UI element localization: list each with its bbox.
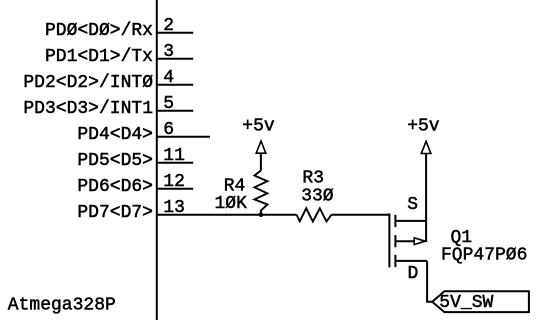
pin 5 stub bbox=[157, 110, 193, 112]
svg-text:PD2<D2>/INTØ: PD2<D2>/INTØ bbox=[23, 73, 153, 93]
resistor R4 zigzag bbox=[254, 171, 267, 215]
net flag 5V_SW outline bbox=[432, 291, 529, 312]
IC Atmega328P body line bbox=[156, 0, 158, 320]
svg-text:FQP47PØ6: FQP47PØ6 bbox=[441, 246, 527, 266]
transistor Q1 channel segment body bbox=[394, 235, 396, 247]
svg-text:PD3<D3>/INT1: PD3<D3>/INT1 bbox=[23, 99, 153, 119]
transistor Q1 source lead bbox=[395, 220, 426, 222]
svg-text:PD1<D1>/Tx: PD1<D1>/Tx bbox=[45, 47, 153, 67]
wire +5v arrow to R4 top bbox=[260, 153, 262, 170]
transistor Q1 body lead bbox=[395, 240, 414, 242]
svg-text:PD4<D4>: PD4<D4> bbox=[77, 125, 153, 145]
svg-text:13: 13 bbox=[163, 198, 185, 218]
svg-text:PD5<D5>: PD5<D5> bbox=[77, 151, 153, 171]
svg-text:Atmega328P: Atmega328P bbox=[8, 296, 116, 316]
pin 4 stub bbox=[157, 84, 193, 86]
svg-text:PD6<D6>: PD6<D6> bbox=[77, 177, 153, 197]
power +5v arrow left bbox=[256, 141, 266, 153]
node junction dot at R4 bottom bbox=[259, 212, 264, 217]
svg-text:R3: R3 bbox=[302, 169, 324, 189]
pin 6 stub wire bbox=[157, 136, 210, 138]
transistor Q1 channel segment source bbox=[394, 215, 396, 227]
svg-text:11: 11 bbox=[163, 146, 185, 166]
svg-text:6: 6 bbox=[163, 120, 174, 140]
resistor R3 zigzag bbox=[297, 208, 332, 221]
wire R3 to MOSFET gate bbox=[332, 214, 390, 216]
svg-text:4: 4 bbox=[163, 68, 174, 88]
transistor Q1 channel segment drain bbox=[394, 255, 396, 267]
svg-text:2: 2 bbox=[163, 16, 174, 36]
svg-text:D: D bbox=[408, 264, 419, 284]
transistor Q1 drain lead bbox=[395, 260, 427, 262]
pin 13 wire to R3 bbox=[157, 214, 297, 216]
svg-text:+5v: +5v bbox=[407, 117, 440, 137]
wire drain down bbox=[427, 261, 432, 302]
svg-text:12: 12 bbox=[163, 172, 185, 192]
wire source to +5v bbox=[425, 154, 427, 242]
svg-text:PD7<D7>: PD7<D7> bbox=[77, 203, 153, 223]
transistor Q1 gate plate bbox=[388, 213, 390, 267]
svg-text:3: 3 bbox=[163, 42, 174, 62]
pin 3 stub bbox=[157, 58, 193, 60]
svg-text:+5v: +5v bbox=[242, 117, 275, 137]
svg-text:PDØ<DØ>/Rx: PDØ<DØ>/Rx bbox=[45, 21, 153, 41]
pin 12 stub bbox=[157, 188, 193, 190]
svg-text:1ØK: 1ØK bbox=[215, 194, 248, 214]
svg-text:S: S bbox=[407, 195, 418, 215]
svg-text:33Ø: 33Ø bbox=[301, 187, 334, 207]
svg-text:5V_SW: 5V_SW bbox=[439, 293, 493, 313]
pin 2 stub bbox=[157, 32, 193, 34]
transistor Q1 body arrow bbox=[414, 238, 425, 245]
svg-text:5: 5 bbox=[163, 94, 174, 114]
pin 11 stub bbox=[157, 162, 193, 164]
power +5v arrow right bbox=[421, 141, 431, 153]
